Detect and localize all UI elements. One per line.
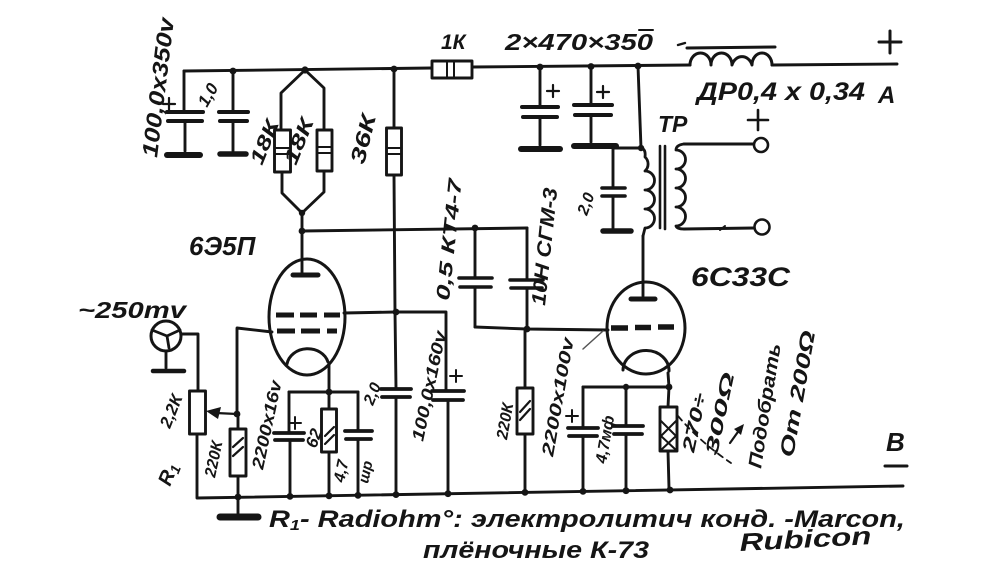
wire: cathode bus 6C33C xyxy=(583,386,669,389)
wire: B+ top rail middle segment xyxy=(472,65,690,67)
capacitor 100,0x160v xyxy=(432,370,464,492)
node: cathode junction 6E5P xyxy=(326,389,333,396)
terminal + (A) xyxy=(879,31,901,53)
wire: g2 to 36K xyxy=(344,312,395,313)
tube 6C33C anode bar xyxy=(631,297,655,302)
overbar on 350 xyxy=(639,29,653,31)
tube 6E5P anode lead xyxy=(301,231,304,273)
node: g2 junction xyxy=(393,309,400,316)
node: grid junction xyxy=(524,326,531,333)
wire: B+ top rail left segment xyxy=(184,68,432,71)
tube 6C33C envelope xyxy=(607,282,685,374)
wire: grid wire 6C33C xyxy=(475,327,608,330)
resistor 18K left xyxy=(275,70,306,213)
node: diamond bottom xyxy=(299,210,305,216)
transformer secondary winding xyxy=(676,144,686,229)
wire: secondary bottom lead xyxy=(684,228,754,229)
svg-text:Rubicon: Rubicon xyxy=(739,522,872,557)
wire: input to pot xyxy=(181,334,198,391)
svg-text:2200x16v: 2200x16v xyxy=(248,377,286,472)
svg-text:В: В xyxy=(886,427,905,457)
annotation dashed leader xyxy=(678,416,731,463)
tube 6E5P envelope xyxy=(269,259,345,375)
svg-text:100,0x350v: 100,0x350v xyxy=(137,15,179,159)
capacitor 4,7 (cathode 1) xyxy=(345,392,372,494)
wire: secondary top lead xyxy=(684,143,753,146)
resistor 220K (input) xyxy=(230,414,246,497)
node: cathode junction 6C33C xyxy=(666,384,673,391)
node: anode load top junction xyxy=(301,66,308,73)
pot wiper arrow xyxy=(216,413,237,414)
wire: g1 to pot wiper xyxy=(237,328,272,414)
tube 6E5P anode bar xyxy=(293,273,318,278)
wire: screen node to 100uF cap xyxy=(396,312,446,390)
tube 6E5P grid g2 dashes xyxy=(276,313,340,318)
svg-text:0,5 КТ4-7: 0,5 КТ4-7 xyxy=(433,176,467,302)
transformer core xyxy=(660,146,665,229)
tube 6E5P cathode xyxy=(287,349,328,364)
wire: transformer to 6C33C anode xyxy=(642,236,645,296)
svg-text:2,0: 2,0 xyxy=(361,380,386,408)
node: coupling junction xyxy=(472,225,479,232)
tube 6E5P grid g1 dashes xyxy=(277,329,337,334)
wire: anode stub xyxy=(301,213,304,231)
wire: rail to transformer primary xyxy=(638,66,641,148)
wire: bottom rail xyxy=(197,486,903,498)
svg-text:36К: 36К xyxy=(347,109,382,166)
resistor 62 xyxy=(322,392,337,495)
svg-text:плёночные К-73: плёночные К-73 xyxy=(423,537,650,564)
choke DR 0,4x0,34 xyxy=(687,47,775,65)
node: anode junction xyxy=(299,228,306,235)
tube 6E5P cathode lead xyxy=(328,364,331,392)
capacitor 10N SGM-3 xyxy=(510,228,543,329)
ground xyxy=(237,497,240,514)
potentiometer 2,2K xyxy=(190,391,206,497)
node: cathode bus mid xyxy=(623,384,629,390)
node: rail junction cap1 xyxy=(537,64,544,71)
svg-text:300Ω: 300Ω xyxy=(701,371,738,457)
capacitor 0,5 KT4-7 xyxy=(459,228,492,327)
node: rail junction transformer xyxy=(635,63,642,70)
svg-text:6Э5П: 6Э5П xyxy=(189,231,257,261)
wire: cathode bus bar xyxy=(289,391,358,394)
capacitor 2200x16v xyxy=(274,392,304,496)
junction dot xyxy=(230,68,237,75)
capacitor 2,0 (screen) xyxy=(381,312,411,493)
svg-text:2,2К: 2,2К xyxy=(156,390,187,431)
resistor 270-300 xyxy=(660,387,677,488)
resistor 18K right xyxy=(302,70,332,213)
svg-text:1,0: 1,0 xyxy=(194,80,223,110)
node: rail junction cap2 xyxy=(588,63,595,70)
resistor 1K xyxy=(432,61,472,78)
wire: B+ top rail right segment xyxy=(772,64,897,65)
node: wiper junction xyxy=(234,411,241,418)
tick on secondary bottom wire xyxy=(720,226,725,230)
transformer primary winding xyxy=(641,148,655,236)
svg-text:R1: R1 xyxy=(154,460,184,489)
resistor 220K (grid 6C33C) xyxy=(517,329,533,491)
tube 6C33C cathode lead xyxy=(668,373,669,387)
svg-text:6С33С: 6С33С xyxy=(691,262,791,292)
svg-text:2×470×350: 2×470×350 xyxy=(504,29,654,55)
svg-text:100,0x160v: 100,0x160v xyxy=(408,327,450,442)
node dots on bottom rail xyxy=(287,493,294,500)
terminal: secondary top xyxy=(754,138,768,152)
tube 6C33C grid dashes xyxy=(611,327,674,328)
scan speck xyxy=(678,43,685,45)
plus mark secondary xyxy=(748,110,768,130)
svg-text:4,7: 4,7 xyxy=(331,457,353,484)
svg-text:ТР: ТР xyxy=(658,111,688,137)
capacitor 2200x100v xyxy=(566,387,598,490)
svg-text:220К: 220К xyxy=(202,438,227,479)
capacitor C 1,0 xyxy=(219,71,248,154)
svg-text:2200x100v: 2200x100v xyxy=(538,334,578,459)
stray pencil mark xyxy=(583,331,603,349)
capacitor 100,0x350v xyxy=(163,71,203,155)
tube 6C33C cathode xyxy=(623,350,669,371)
input connector xyxy=(151,321,184,371)
node: rail at 220K xyxy=(235,494,242,501)
terminal B minus xyxy=(885,465,907,468)
capacitor 4,7mf xyxy=(613,387,643,489)
wire: anode coupling wire xyxy=(302,228,527,231)
svg-text:220К: 220К xyxy=(494,401,517,442)
node: primary top / 2,0 bar xyxy=(638,145,644,151)
terminal: secondary bottom xyxy=(755,220,770,235)
svg-text:А: А xyxy=(877,82,895,109)
svg-text:шр: шр xyxy=(355,459,376,485)
svg-text:4,7мф: 4,7мф xyxy=(593,414,618,465)
node: rail junction at 36K xyxy=(391,66,398,73)
resistor 36K xyxy=(387,69,402,312)
svg-text:ДР0,4 x 0,34: ДР0,4 x 0,34 xyxy=(695,78,865,106)
svg-text:1К: 1К xyxy=(441,31,468,54)
capacitor 470uF #1 xyxy=(521,67,560,149)
svg-text:10Н СГМ-3: 10Н СГМ-3 xyxy=(528,187,562,307)
annotation arrow xyxy=(730,429,740,443)
svg-text:2,0: 2,0 xyxy=(574,191,598,219)
capacitor 2,0 (primary bypass) xyxy=(602,148,641,231)
capacitor 470uF #2 xyxy=(574,66,616,146)
svg-text:~250mv: ~250mv xyxy=(78,297,188,323)
